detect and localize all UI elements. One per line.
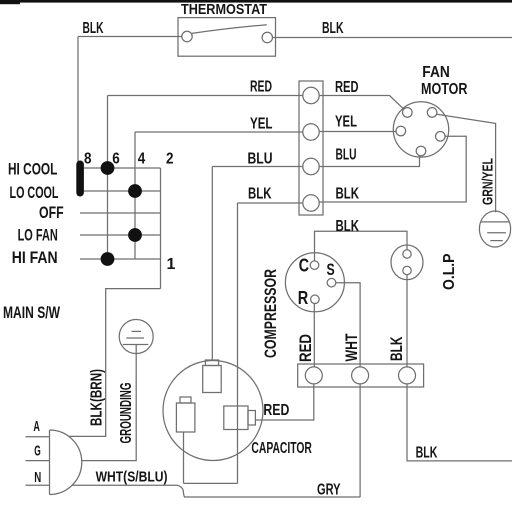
svg-text:HI COOL: HI COOL xyxy=(8,160,57,179)
wire: WHT column down to GRY run xyxy=(359,384,361,497)
compressor pin S xyxy=(327,278,336,287)
wire: BLK from strip right, up to fan motor right pin xyxy=(319,136,466,202)
grounding symbol line long xyxy=(123,344,149,346)
thermostat box xyxy=(178,18,276,57)
main switch row OFF xyxy=(80,212,161,214)
svg-text:LO COOL: LO COOL xyxy=(10,183,59,202)
main switch row LO FAN xyxy=(80,234,161,236)
svg-text:GROUNDING: GROUNDING xyxy=(118,383,135,444)
grounding electrode circle xyxy=(119,320,153,354)
terminal WHT xyxy=(352,367,369,384)
svg-text:C: C xyxy=(299,256,309,276)
wire: from pin1 down, left and down to plug (BLK(BRN)) xyxy=(69,289,161,437)
wire: capacitor right terminal to RED strip column xyxy=(255,384,313,420)
wire: BLK row from compressor column to connector strip xyxy=(238,202,303,204)
svg-text:MOTOR: MOTOR xyxy=(421,81,468,98)
svg-text:YEL: YEL xyxy=(250,116,273,133)
svg-text:GRN/YEL: GRN/YEL xyxy=(481,158,497,205)
svg-text:BLK: BLK xyxy=(322,20,344,37)
switch contact dot pin6 HI FAN xyxy=(101,252,115,266)
capacitor left terminal xyxy=(176,397,195,432)
wire: BLK vertical down to capacitor-left junction xyxy=(237,203,239,483)
wire: junction horizontal to BLK column xyxy=(184,482,238,484)
wire: BLK from thermostat to right edge xyxy=(273,37,512,39)
svg-text:BLU: BLU xyxy=(336,147,357,164)
svg-text:BLK: BLK xyxy=(336,218,360,235)
fan motor pin top-left xyxy=(403,108,413,118)
svg-text:RED: RED xyxy=(335,79,359,96)
svg-text:WHT: WHT xyxy=(343,334,361,362)
wire stub G xyxy=(26,460,50,462)
svg-text:BLK: BLK xyxy=(388,336,406,361)
top border line xyxy=(0,0,512,3)
svg-text:COMPRESSOR: COMPRESSOR xyxy=(262,269,280,358)
wire: capacitor left terminal down to junction xyxy=(183,432,185,483)
svg-text:HI FAN: HI FAN xyxy=(12,248,58,267)
svg-text:BLK(BRN): BLK(BRN) xyxy=(89,369,106,426)
wire: compressor R down to RED column xyxy=(313,304,315,367)
wire jog down xyxy=(177,485,185,497)
terminal BLK xyxy=(399,367,416,384)
svg-text:THERMOSTAT: THERMOSTAT xyxy=(181,1,267,18)
svg-text:RED: RED xyxy=(297,334,315,362)
wire: pin 6 column vertical xyxy=(107,96,109,260)
compressor pin C xyxy=(310,261,319,270)
svg-text:YEL: YEL xyxy=(335,114,357,131)
wire: BLU vertical down to capacitor top terminal xyxy=(211,167,213,362)
fan motor pin top-right xyxy=(427,108,437,118)
svg-text:N: N xyxy=(34,469,41,486)
wire: BLK from top-left to thermostat xyxy=(78,36,182,38)
main switch row LO COOL xyxy=(80,190,161,192)
wire: pin 4 column vertical xyxy=(134,132,136,259)
wire: RED from strip to fan motor top-left pin xyxy=(319,96,404,110)
wire: BLU row from capacitor column to connector strip xyxy=(212,166,302,168)
fan motor pin bottom xyxy=(416,146,426,156)
thermostat terminal right xyxy=(262,32,272,42)
svg-text:LO FAN: LO FAN xyxy=(18,226,58,245)
wire: WHT(S/BLU) from plug N to jog xyxy=(72,484,177,486)
svg-text:BLU: BLU xyxy=(248,151,273,168)
fan motor pin left xyxy=(396,126,406,136)
svg-text:1: 1 xyxy=(167,256,176,273)
strip terminal YEL xyxy=(303,124,319,140)
main switch row HI FAN xyxy=(80,258,161,260)
thermostat switch blade xyxy=(192,25,267,34)
earth symbol line long xyxy=(481,221,510,223)
wire: BLU from strip right then up to fan motor bottom pin xyxy=(319,156,419,167)
switch capsule contact on pin 8 xyxy=(76,161,84,197)
O.L.P pin bottom xyxy=(403,266,411,274)
wire: BLK column down then right to edge xyxy=(407,384,512,461)
svg-text:4: 4 xyxy=(138,150,146,167)
earth symbol line short xyxy=(490,240,503,242)
thermostat terminal left xyxy=(182,31,192,41)
svg-text:GRY: GRY xyxy=(317,481,341,498)
svg-text:WHT(S/BLU): WHT(S/BLU) xyxy=(96,469,168,486)
O.L.P body xyxy=(391,245,423,280)
strip terminal BLU xyxy=(303,158,319,174)
strip terminal RED xyxy=(303,87,319,103)
svg-text:R: R xyxy=(298,288,309,308)
switch contact dot pin4 LO COOL xyxy=(128,184,142,198)
wire: OLP bottom down to terminal block BLK column xyxy=(406,275,408,367)
svg-text:A: A xyxy=(33,418,40,435)
svg-text:FAN: FAN xyxy=(422,64,450,81)
svg-text:G: G xyxy=(34,443,41,460)
wire: YEL from strip to fan motor left pin xyxy=(319,131,396,133)
svg-text:BLK: BLK xyxy=(83,20,104,37)
compressor body circle xyxy=(285,253,344,312)
svg-text:BLK: BLK xyxy=(248,186,272,203)
capacitor top terminal xyxy=(203,360,222,393)
svg-text:CAPACITOR: CAPACITOR xyxy=(251,440,312,457)
switch contact dot pin4 LO FAN xyxy=(128,228,142,242)
wire stub A xyxy=(26,436,50,438)
svg-text:2: 2 xyxy=(166,150,174,167)
svg-text:BLK: BLK xyxy=(336,186,360,203)
wire: YEL row from pin4 column to connector strip xyxy=(135,131,303,133)
svg-text:S: S xyxy=(327,260,335,279)
capacitor right terminal xyxy=(224,406,256,430)
wire: vertical from BLK corner down to main switch pin 8 xyxy=(77,37,79,197)
earth ground circle (right) xyxy=(479,211,510,247)
strip terminal BLK xyxy=(303,195,319,211)
wire: compressor S to WHT column xyxy=(336,283,360,367)
capacitor body circle xyxy=(163,361,263,461)
compressor pin R xyxy=(311,295,320,304)
grounding symbol line middle xyxy=(126,337,144,339)
svg-text:O.L.P: O.L.P xyxy=(441,253,458,290)
main switch row HI COOL xyxy=(80,167,161,169)
wire stub N xyxy=(26,484,50,486)
svg-text:RED: RED xyxy=(250,79,272,96)
connector strip (vertical) xyxy=(299,81,323,215)
wire: fan top-right pin to earth (GRN/YEL) xyxy=(437,114,496,212)
terminal RED xyxy=(305,367,322,384)
main switch pin 2/1 column xyxy=(160,168,162,289)
fan motor pin right xyxy=(436,132,446,142)
grounding symbol line short xyxy=(132,330,142,332)
svg-text:BLK: BLK xyxy=(416,445,438,462)
earth symbol line middle xyxy=(487,232,506,234)
switch contact dot pin6 HI COOL xyxy=(101,161,115,175)
terminal block (horizontal) xyxy=(298,364,424,387)
svg-text:MAIN S/W: MAIN S/W xyxy=(3,303,61,322)
wire: BLK from compressor C up and over to OLP xyxy=(315,231,408,261)
svg-text:8: 8 xyxy=(84,150,92,167)
wire: grounding stem down to plug G wire xyxy=(82,345,137,461)
O.L.P pin top xyxy=(403,250,411,258)
svg-text:OFF: OFF xyxy=(39,203,64,222)
wire: GRY bottom run to terminal block WHT column xyxy=(184,496,360,498)
svg-text:RED: RED xyxy=(263,402,289,419)
wire: RED row from pin6 column to connector strip xyxy=(108,95,303,97)
power plug semicircle xyxy=(50,430,82,495)
fan motor body xyxy=(393,102,448,157)
